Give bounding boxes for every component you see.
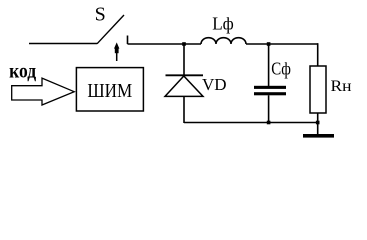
svg-text:S: S bbox=[95, 3, 106, 25]
svg-text:код: код bbox=[9, 59, 36, 83]
svg-text:Rн: Rн bbox=[331, 78, 352, 95]
svg-text:ШИМ: ШИМ bbox=[87, 80, 132, 102]
svg-text:VD: VD bbox=[202, 75, 227, 94]
svg-text:Lф: Lф bbox=[212, 13, 234, 33]
svg-text:Сф: Сф bbox=[271, 58, 291, 78]
